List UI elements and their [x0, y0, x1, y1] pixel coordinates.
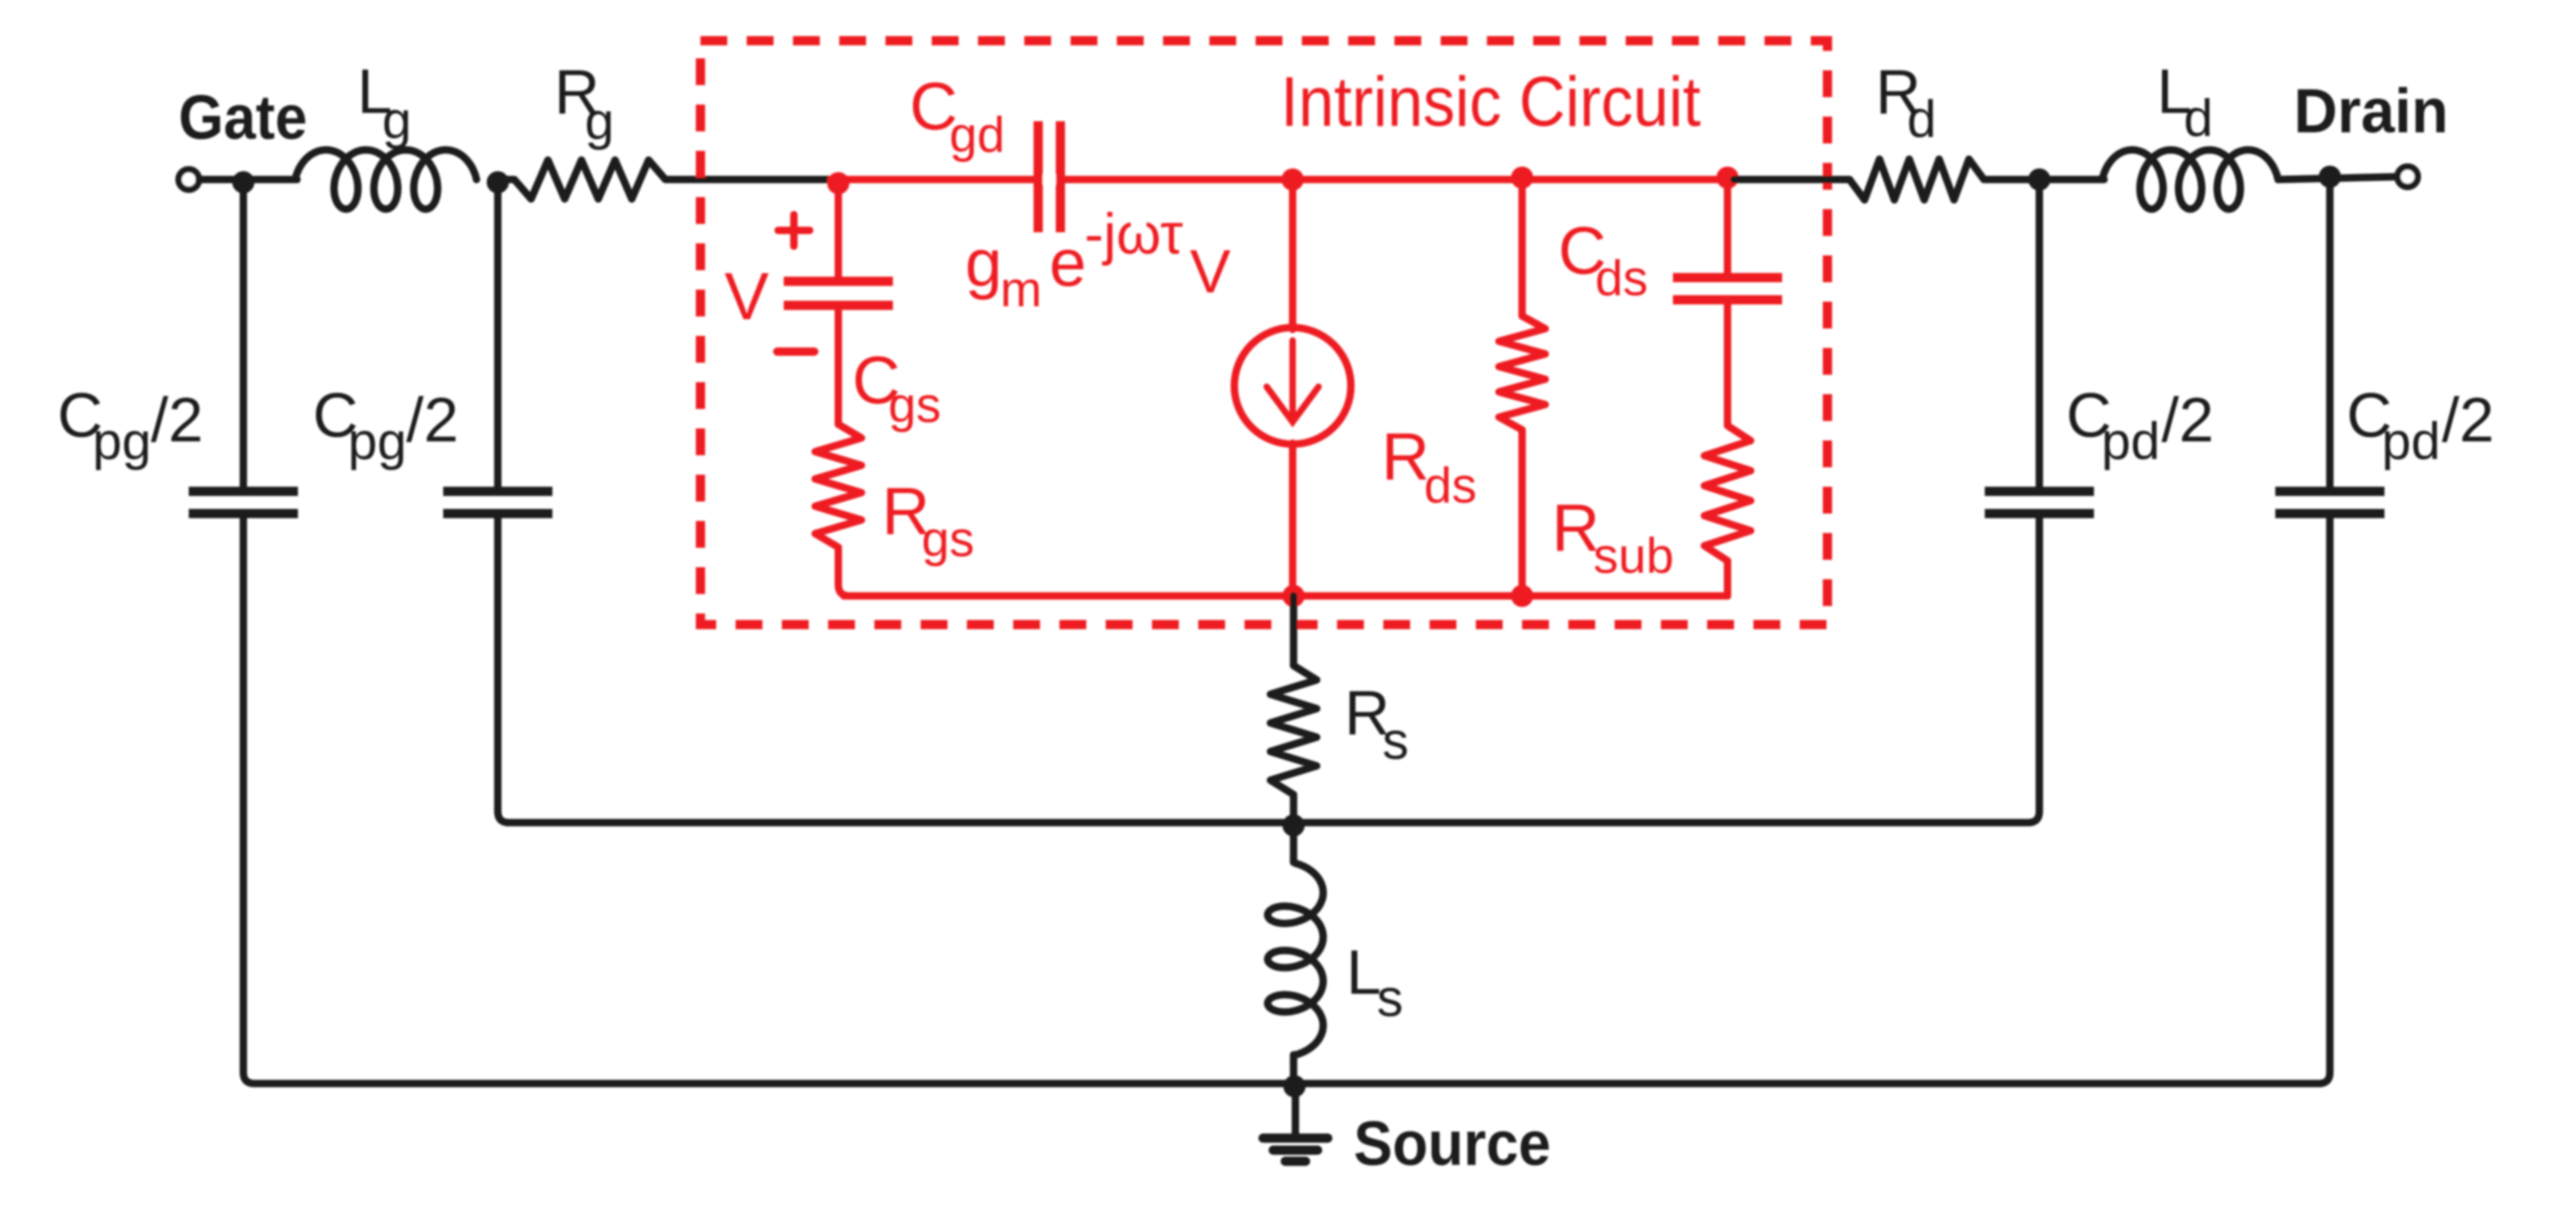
resistor Rds: [1499, 303, 1545, 442]
svg-text:d: d: [1907, 90, 1937, 149]
resistor Rd: [1835, 159, 1999, 200]
node H Rds bottom: [1511, 585, 1533, 607]
svg-text:/2: /2: [151, 385, 204, 455]
svg-text:s: s: [1377, 969, 1404, 1028]
svg-text:g: g: [382, 91, 412, 150]
wire Cpd2 lower + elbow to bottom wire: [2319, 514, 2330, 1084]
label minus: [777, 348, 814, 356]
node I Rd/Cpd junction: [2028, 168, 2050, 191]
node G source-side intrinsic: [1282, 585, 1305, 607]
svg-text:ds: ds: [1424, 458, 1477, 514]
svg-text:Source: Source: [1354, 1109, 1551, 1179]
wire W1 to Ls: [1290, 823, 1297, 862]
resistor Rs: [1270, 651, 1317, 809]
wire Cpg2 lower + elbow to mid wire: [498, 514, 509, 823]
svg-text:/2: /2: [2161, 385, 2214, 455]
node D current-source top: [1282, 168, 1304, 191]
node A gate/Cpg junction: [232, 171, 254, 193]
resistor Rg: [498, 160, 682, 199]
svg-text:-jωτ: -jωτ: [1084, 203, 1183, 266]
svg-text:d: d: [2184, 89, 2213, 148]
capacitor Cpg/2 #2: [443, 487, 552, 496]
svg-text:/2: /2: [406, 385, 459, 455]
svg-text:V: V: [724, 260, 769, 334]
node Rs/W1: [1282, 814, 1305, 836]
wire Ls to W2: [1290, 1055, 1297, 1084]
wire box to Rd: [1734, 176, 1841, 183]
intrinsic circuit dashed box: [700, 41, 1827, 625]
wire Ld to drain: [2278, 177, 2396, 180]
node C gate-side intrinsic: [827, 172, 849, 194]
svg-text:sub: sub: [1593, 528, 1674, 584]
current source gm: [1234, 328, 1351, 444]
wire cs bottom: [1289, 443, 1296, 596]
wire cs top: [1289, 180, 1296, 329]
capacitor Cds: [1673, 273, 1782, 282]
svg-text:/2: /2: [2442, 385, 2495, 455]
wire Cpd1 lower + elbow to mid wire: [2028, 514, 2039, 823]
wire Cpd2 upper: [2326, 177, 2334, 488]
svg-text:gs: gs: [922, 512, 974, 567]
svg-text:Drain: Drain: [2294, 76, 2448, 146]
svg-text:pd: pd: [2382, 412, 2440, 471]
node B Lg/Rg junction: [487, 171, 509, 193]
inductor Ld: [2102, 150, 2278, 209]
wire bottom horizontal W2: [253, 1080, 2321, 1087]
wire intrinsic to Rs: [1290, 596, 1297, 659]
wire mid horizontal W1: [507, 819, 2030, 826]
wire Rds top lead: [1518, 180, 1526, 311]
wire gate lead: [199, 176, 297, 183]
svg-text:gd: gd: [949, 107, 1005, 163]
label plus: [778, 215, 810, 246]
node Ls/W2: [1283, 1075, 1306, 1097]
wire Cpg1 lower + elbow to bottom wire: [243, 514, 254, 1084]
svg-text:pg: pg: [348, 412, 406, 471]
current source arrow: [1267, 341, 1319, 422]
wire red bottom rail: [844, 592, 1728, 600]
svg-text:s: s: [1382, 712, 1409, 771]
wire Rd to Ld: [1999, 176, 2104, 183]
wire Rsub bottom lead: [1724, 576, 1731, 596]
wire Cpg1 upper: [240, 180, 247, 488]
svg-text:ds: ds: [1595, 251, 1648, 306]
wire node C down: [835, 180, 842, 281]
inductor Ls: [1268, 863, 1323, 1055]
svg-text:g: g: [585, 92, 614, 151]
ground: [1263, 1138, 1328, 1161]
wire Cds to Rsub: [1724, 300, 1731, 418]
capacitor Cpd/2 #1: [1985, 487, 2094, 496]
wire Rs to W1: [1290, 809, 1297, 823]
wire Cpd1 upper: [2036, 180, 2043, 488]
wire Rg to intrinsic box: [682, 176, 836, 183]
resistor Rgs: [815, 411, 861, 561]
svg-text:m: m: [1000, 262, 1042, 317]
capacitor Cgd: [1034, 121, 1065, 232]
node E Rds top: [1511, 167, 1533, 189]
svg-text:Intrinsic Circuit: Intrinsic Circuit: [1281, 63, 1701, 142]
inductor Lg: [295, 150, 477, 209]
wire Rds bottom lead: [1518, 442, 1526, 596]
wire Rgs to red bottom rail: [838, 561, 849, 596]
svg-text:V: V: [1190, 237, 1231, 305]
svg-text:R: R: [1381, 420, 1430, 494]
terminal Drain: [2397, 167, 2418, 187]
capacitor Cgs: [784, 277, 893, 286]
resistor Rsub: [1704, 411, 1751, 576]
svg-text:g: g: [965, 227, 1002, 301]
wire Cgs to Rgs: [835, 305, 842, 418]
capacitor Cpd/2 #2: [2275, 487, 2384, 496]
svg-text:pg: pg: [93, 412, 151, 471]
terminal Gate: [179, 169, 199, 190]
node F drain-side intrinsic: [1716, 167, 1739, 189]
svg-text:pd: pd: [2101, 412, 2160, 471]
wire Cpg2 upper: [494, 180, 502, 488]
svg-text:Gate: Gate: [179, 82, 307, 153]
node J Ld/drain junction: [2319, 166, 2341, 188]
wire red top rail: [831, 176, 1734, 183]
svg-text:e: e: [1049, 227, 1086, 301]
capacitor Cpg/2 #1: [189, 487, 298, 496]
wire Cds top lead: [1724, 180, 1731, 278]
svg-text:gs: gs: [888, 378, 941, 433]
wire W2 to ground: [1292, 1084, 1299, 1139]
